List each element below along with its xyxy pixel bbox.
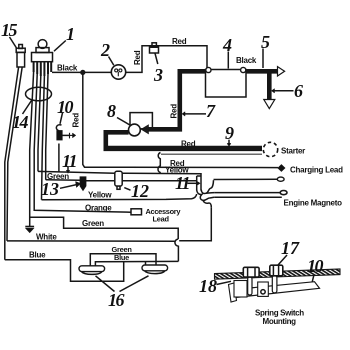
svg-text:8: 8 <box>107 101 116 121</box>
svg-text:16: 16 <box>108 290 125 310</box>
svg-text:Black: Black <box>236 56 257 65</box>
svg-text:Red: Red <box>170 104 179 119</box>
svg-text:15: 15 <box>1 20 18 40</box>
svg-text:4: 4 <box>222 35 232 55</box>
svg-text:13: 13 <box>41 179 59 199</box>
svg-text:17: 17 <box>281 238 300 258</box>
svg-text:White: White <box>36 233 57 242</box>
svg-text:Starter: Starter <box>281 147 305 156</box>
svg-text:10: 10 <box>307 256 324 276</box>
svg-text:3: 3 <box>153 65 163 85</box>
svg-text:Red: Red <box>72 113 81 128</box>
svg-text:7: 7 <box>206 101 216 121</box>
svg-text:6: 6 <box>294 81 303 101</box>
svg-text:Blue: Blue <box>114 253 129 262</box>
svg-text:Black: Black <box>57 64 78 73</box>
svg-text:Red: Red <box>133 50 142 65</box>
svg-text:11: 11 <box>62 151 77 171</box>
svg-text:9: 9 <box>225 123 234 143</box>
svg-text:Red: Red <box>181 140 196 149</box>
svg-text:Orange: Orange <box>85 204 112 213</box>
svg-text:Red: Red <box>172 37 187 46</box>
svg-text:Yellow: Yellow <box>88 191 112 200</box>
svg-text:11: 11 <box>175 173 190 193</box>
svg-text:18: 18 <box>199 276 217 296</box>
svg-text:10: 10 <box>57 97 74 117</box>
svg-text:Engine Magneto: Engine Magneto <box>284 199 343 208</box>
svg-text:1: 1 <box>66 24 75 44</box>
svg-text:5: 5 <box>261 32 270 52</box>
svg-text:Lead: Lead <box>153 215 170 224</box>
svg-text:Blue: Blue <box>29 251 46 260</box>
svg-text:2: 2 <box>100 40 110 60</box>
svg-text:14: 14 <box>12 112 29 132</box>
svg-text:12: 12 <box>131 181 149 201</box>
svg-text:Green: Green <box>82 219 104 228</box>
svg-text:Mounting: Mounting <box>263 317 297 326</box>
svg-text:Charging Lead: Charging Lead <box>290 166 343 175</box>
